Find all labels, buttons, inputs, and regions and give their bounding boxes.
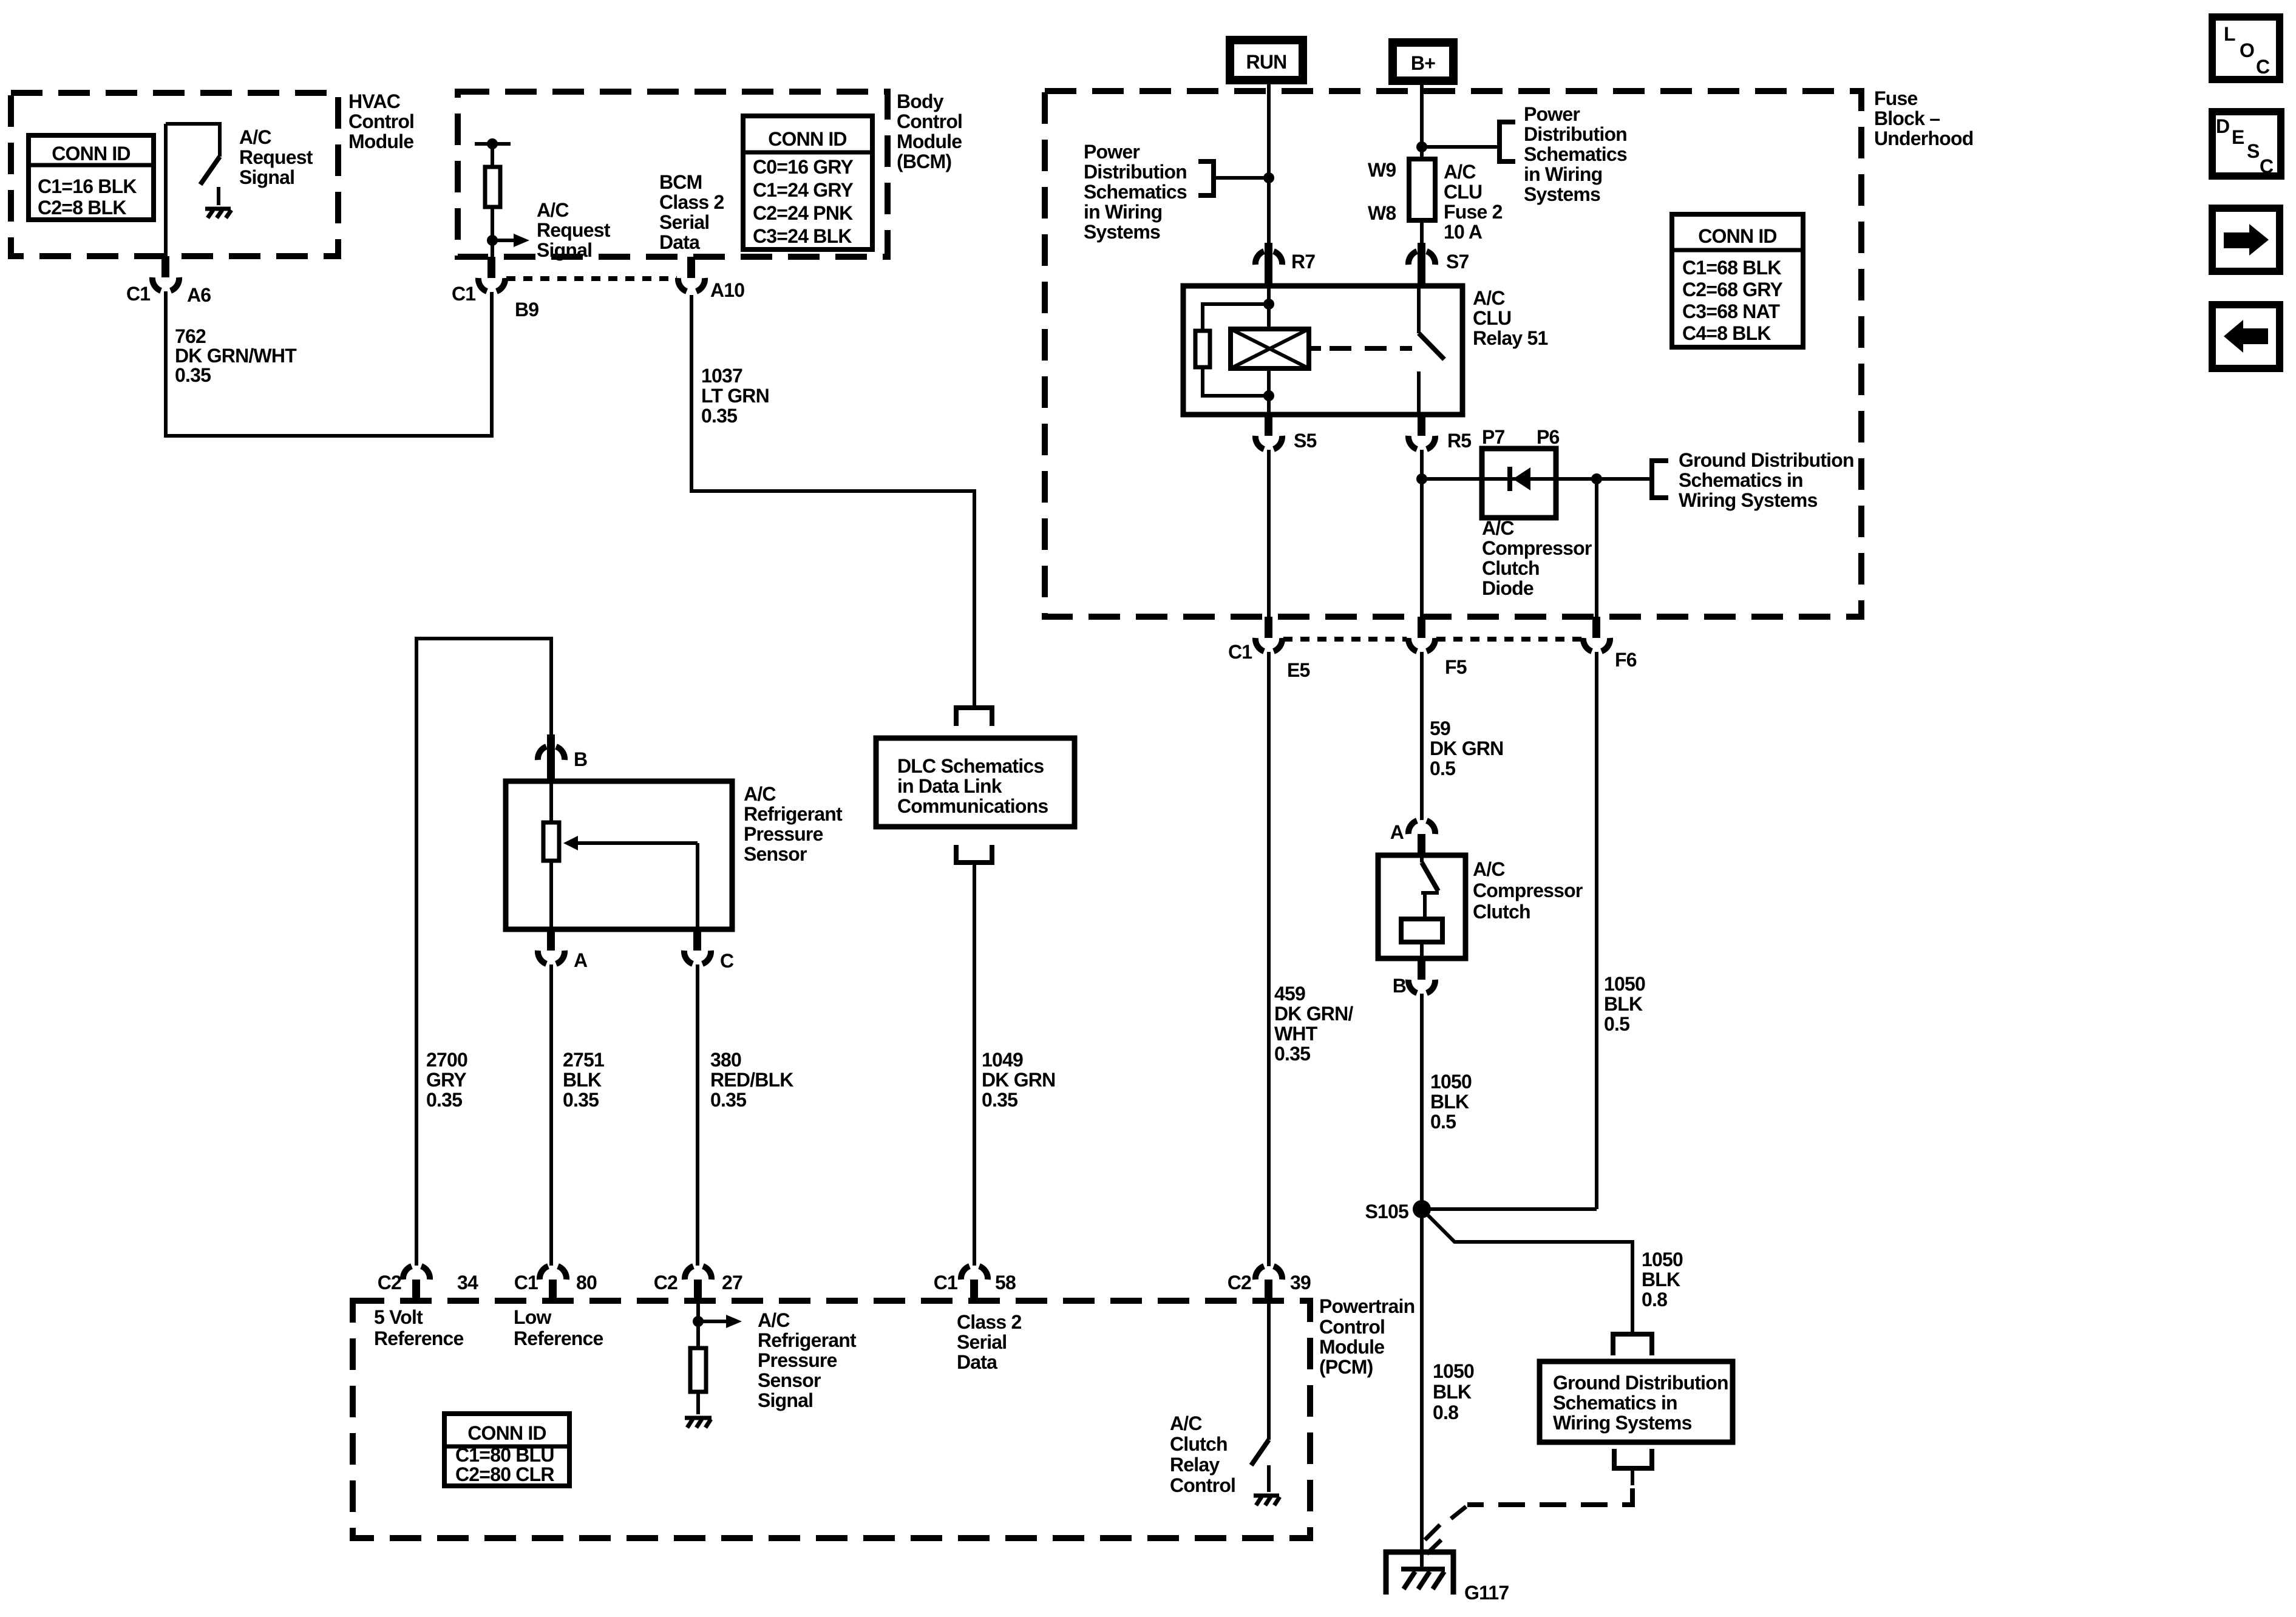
svg-text:Pressure: Pressure	[744, 823, 823, 845]
wire label 1050 BLK 0.5 (right)	[1604, 973, 1645, 1035]
svg-text:B: B	[574, 748, 587, 770]
connector S7	[1408, 243, 1469, 286]
svg-text:10 A: 10 A	[1444, 221, 1483, 243]
internal resistor (PCM)	[690, 1348, 706, 1414]
svg-text:BLK: BLK	[1433, 1381, 1472, 1403]
svg-text:380: 380	[710, 1049, 741, 1071]
svg-text:DK GRN/: DK GRN/	[1274, 1003, 1353, 1025]
off-page bracket below ground distribution box	[1614, 1449, 1652, 1468]
wire S105 to G117	[1420, 1209, 1424, 1567]
svg-text:Schematics: Schematics	[1084, 181, 1187, 203]
svg-text:0.8: 0.8	[1642, 1289, 1667, 1310]
svg-text:C2=68 GRY: C2=68 GRY	[1682, 279, 1782, 300]
connector F5	[1408, 617, 1467, 678]
svg-text:Wiring Systems: Wiring Systems	[1679, 489, 1818, 511]
wire 59 DK GRN F5 to A	[1420, 652, 1424, 820]
svg-text:39: 39	[1290, 1272, 1311, 1293]
svg-text:RUN: RUN	[1246, 51, 1287, 73]
connector R7	[1255, 243, 1315, 286]
Fuse Block Underhood label	[1874, 87, 1973, 149]
svg-text:CONN ID: CONN ID	[52, 143, 131, 164]
DLC Schematics box	[876, 738, 1075, 827]
svg-text:DK GRN: DK GRN	[982, 1069, 1055, 1091]
junction diode/F6	[1591, 473, 1602, 484]
Power Distribution Schematics in Wiring Systems label (B+)	[1524, 103, 1627, 205]
svg-text:HVAC: HVAC	[348, 90, 401, 112]
svg-text:C1: C1	[1228, 641, 1252, 663]
A/C Request Signal label (BCM)	[537, 199, 611, 261]
svg-text:Communications: Communications	[897, 795, 1048, 817]
svg-text:C2=8 BLK: C2=8 BLK	[38, 197, 126, 219]
wire label 1050 BLK 0.5 (left)	[1430, 1071, 1472, 1133]
Class 2 Serial Data label	[957, 1311, 1021, 1373]
svg-text:Fuse 2: Fuse 2	[1444, 201, 1503, 223]
relay coil branch resistor loop	[1195, 304, 1269, 396]
svg-text:C1=24 GRY: C1=24 GRY	[753, 179, 853, 201]
svg-text:0.35: 0.35	[175, 364, 211, 386]
svg-text:0.35: 0.35	[1274, 1043, 1310, 1065]
svg-text:Serial: Serial	[659, 211, 709, 233]
wire HVAC switch to connector A6	[164, 124, 168, 257]
svg-text:Signal: Signal	[537, 239, 592, 261]
svg-text:Signal: Signal	[758, 1389, 813, 1411]
svg-text:Control: Control	[348, 110, 414, 132]
relay switch	[1419, 286, 1444, 415]
A/C Refrigerant Pressure Sensor label	[744, 783, 843, 865]
wire B+ to S7	[1420, 84, 1424, 244]
relay coil wire	[1267, 286, 1271, 415]
svg-text:A: A	[574, 949, 588, 971]
wire F6 down to S105	[1422, 652, 1597, 1209]
svg-text:0.5: 0.5	[1430, 1111, 1456, 1133]
wire to power distribution bracket	[1214, 176, 1269, 180]
wire S105 branch to ground distribution	[1422, 1209, 1632, 1334]
svg-text:34: 34	[457, 1272, 478, 1293]
LOC box	[2212, 17, 2280, 80]
svg-text:Refrigerant: Refrigerant	[758, 1329, 857, 1351]
svg-text:B: B	[1393, 975, 1406, 997]
A/C CLU Fuse 2 10 A label	[1444, 161, 1503, 243]
svg-text:1050: 1050	[1430, 1071, 1472, 1093]
Fuse Block Underhood dashed box	[1045, 91, 1861, 617]
svg-text:Schematics: Schematics	[1524, 143, 1627, 165]
svg-text:Reference: Reference	[514, 1327, 603, 1349]
DLC off-page bracket top	[956, 708, 992, 726]
svg-text:A/C: A/C	[758, 1309, 790, 1331]
svg-text:Class 2: Class 2	[659, 191, 724, 213]
connector A (compressor clutch)	[1390, 821, 1435, 855]
wire label 2751 BLK 0.35	[563, 1049, 604, 1111]
svg-text:LT GRN: LT GRN	[701, 385, 769, 407]
svg-text:A/C: A/C	[1482, 517, 1514, 539]
svg-text:C: C	[2260, 155, 2274, 177]
wire label 1050 BLK 0.8 (right)	[1642, 1249, 1683, 1310]
wire 1037 LT GRN	[691, 295, 974, 707]
svg-text:27: 27	[722, 1272, 742, 1293]
svg-text:CONN ID: CONN ID	[467, 1422, 546, 1444]
svg-text:Low: Low	[514, 1306, 551, 1328]
svg-text:CONN ID: CONN ID	[768, 128, 847, 150]
svg-text:BLK: BLK	[1430, 1091, 1469, 1113]
svg-text:DK GRN/WHT: DK GRN/WHT	[175, 345, 297, 367]
svg-text:S7: S7	[1446, 251, 1469, 273]
svg-text:A/C: A/C	[1170, 1412, 1202, 1434]
svg-text:BLK: BLK	[1642, 1269, 1680, 1290]
svg-text:C1: C1	[514, 1272, 538, 1293]
svg-text:P6: P6	[1537, 426, 1560, 448]
wire R5 to F5	[1420, 450, 1424, 618]
svg-text:E5: E5	[1287, 659, 1310, 681]
svg-text:Relay: Relay	[1170, 1454, 1220, 1476]
wire label 459 DK GRN/ WHT 0.35	[1274, 983, 1353, 1065]
svg-text:2751: 2751	[563, 1049, 604, 1071]
wire 2751 BLK	[549, 964, 553, 1266]
relay linkage dashed	[1309, 346, 1321, 351]
off-page bracket (power distribution B+)	[1500, 122, 1515, 161]
wire 2700 GRY (5 volt reference)	[416, 639, 551, 1266]
svg-text:Sensor: Sensor	[758, 1369, 821, 1391]
svg-text:80: 80	[576, 1272, 597, 1293]
A/C CLU Relay 51 box	[1183, 286, 1462, 415]
Power Distribution Schematics in Wiring Systems label (RUN)	[1084, 141, 1187, 243]
svg-text:Ground Distribution: Ground Distribution	[1679, 449, 1854, 471]
svg-text:C1=80 BLU: C1=80 BLU	[455, 1444, 554, 1466]
svg-text:0.35: 0.35	[982, 1089, 1017, 1111]
svg-text:C2: C2	[1228, 1272, 1251, 1293]
splice diagonal ticks	[1425, 1507, 1466, 1540]
wire label 1049 DK GRN 0.35	[982, 1049, 1055, 1111]
connector B (compressor clutch)	[1393, 958, 1435, 997]
svg-text:in Data Link: in Data Link	[897, 775, 1002, 797]
connector C1 B9	[452, 257, 538, 320]
A/C Refrigerant Pressure Sensor box	[506, 781, 732, 929]
svg-text:Systems: Systems	[1084, 221, 1160, 243]
svg-text:0.5: 0.5	[1604, 1013, 1629, 1035]
wire RUN to R7	[1267, 84, 1271, 244]
wire label 1037 LT GRN 0.35	[701, 365, 769, 427]
svg-text:Module: Module	[897, 131, 962, 152]
svg-text:A/C: A/C	[239, 126, 271, 148]
junction dot	[693, 1316, 704, 1327]
svg-text:1050: 1050	[1642, 1249, 1683, 1270]
svg-text:Distribution: Distribution	[1084, 161, 1187, 183]
svg-text:Clutch: Clutch	[1482, 557, 1540, 579]
pull-up resistor (BCM)	[475, 144, 511, 257]
svg-text:S: S	[2247, 140, 2260, 162]
svg-text:Compressor: Compressor	[1473, 880, 1583, 901]
wire S5 to E5	[1267, 450, 1271, 618]
svg-text:BLK: BLK	[563, 1069, 602, 1091]
BCM Class 2 Serial Data label	[659, 171, 724, 253]
right arrow box	[2212, 208, 2280, 271]
svg-text:1050: 1050	[1604, 973, 1645, 995]
sensor wiper arrow	[563, 836, 698, 929]
svg-text:Schematics in: Schematics in	[1679, 469, 1803, 491]
5 Volt Reference label	[374, 1306, 464, 1349]
svg-text:BCM: BCM	[659, 171, 702, 193]
Low Reference label	[514, 1306, 603, 1349]
svg-text:C1: C1	[452, 283, 475, 305]
junction B+ branch	[1416, 141, 1427, 152]
svg-text:58: 58	[995, 1272, 1016, 1293]
CONN ID table (PCM)	[444, 1414, 569, 1486]
junction dots relay	[1263, 299, 1274, 310]
svg-text:(BCM): (BCM)	[897, 151, 951, 172]
svg-text:C0=16 GRY: C0=16 GRY	[753, 156, 853, 178]
off-page bracket above ground distribution box	[1613, 1334, 1652, 1355]
A/C Clutch Relay Control label	[1170, 1412, 1235, 1496]
connector C1 E5	[1228, 617, 1310, 681]
connector C2 34	[378, 1266, 478, 1301]
svg-text:in Wiring: in Wiring	[1084, 201, 1162, 223]
svg-text:Distribution: Distribution	[1524, 123, 1627, 145]
svg-text:E: E	[2232, 126, 2244, 148]
svg-text:C2: C2	[378, 1272, 401, 1293]
svg-text:CONN ID: CONN ID	[1698, 225, 1777, 247]
svg-text:W8: W8	[1368, 202, 1396, 224]
svg-text:Data: Data	[957, 1351, 997, 1373]
svg-text:D: D	[2216, 115, 2229, 137]
svg-text:762: 762	[175, 325, 206, 347]
junction dot at arrow	[487, 235, 498, 246]
ground (PCM sensor signal)	[685, 1418, 712, 1428]
connector C (pressure sensor)	[684, 929, 734, 972]
svg-text:A/C: A/C	[744, 783, 776, 805]
svg-text:DK GRN: DK GRN	[1430, 737, 1503, 759]
A/C request switch (HVAC)	[166, 124, 220, 205]
svg-text:W9: W9	[1368, 159, 1396, 181]
svg-text:R5: R5	[1447, 430, 1471, 452]
svg-text:0.8: 0.8	[1433, 1402, 1458, 1423]
wire label 762 DK GRN/WHT 0.35	[175, 325, 297, 386]
fuse W9/W8 A/C CLU Fuse 2 10A	[1368, 159, 1435, 224]
svg-text:Wiring Systems: Wiring Systems	[1553, 1412, 1692, 1434]
ground (HVAC switch)	[205, 209, 231, 218]
A/C Refrigerant Pressure Sensor Signal label	[758, 1309, 857, 1411]
svg-text:0.35: 0.35	[563, 1089, 599, 1111]
svg-text:C1=68 BLK: C1=68 BLK	[1682, 257, 1781, 279]
connector R5	[1408, 415, 1471, 452]
svg-text:B+: B+	[1411, 52, 1435, 74]
svg-text:Compressor: Compressor	[1482, 537, 1592, 559]
DESC box	[2212, 112, 2281, 177]
svg-text:B9: B9	[515, 299, 538, 320]
relay coil box with X	[1231, 329, 1309, 368]
svg-text:Data: Data	[659, 231, 700, 253]
svg-text:459: 459	[1274, 983, 1305, 1005]
svg-text:Class 2: Class 2	[957, 1311, 1021, 1333]
svg-text:Serial: Serial	[957, 1331, 1007, 1353]
svg-text:C: C	[720, 950, 734, 972]
svg-text:Request: Request	[239, 146, 313, 168]
A/C Compressor Clutch Diode box	[1482, 449, 1556, 518]
svg-text:A6: A6	[187, 284, 211, 306]
connector C2 39	[1228, 1266, 1311, 1301]
svg-text:Ground Distribution: Ground Distribution	[1553, 1372, 1728, 1394]
svg-text:Reference: Reference	[374, 1327, 464, 1349]
svg-text:Signal: Signal	[239, 166, 294, 188]
junction dot top of resistor	[487, 138, 498, 149]
svg-text:L: L	[2224, 23, 2235, 45]
svg-text:R7: R7	[1291, 251, 1315, 273]
svg-text:C1: C1	[126, 283, 150, 305]
svg-text:C2: C2	[654, 1272, 678, 1293]
svg-text:Refrigerant: Refrigerant	[744, 803, 843, 825]
CONN ID table (BCM)	[743, 116, 872, 249]
svg-text:Control: Control	[1170, 1474, 1235, 1496]
svg-text:RED/BLK: RED/BLK	[710, 1069, 793, 1091]
A/C request signal arrow (BCM)	[492, 234, 529, 247]
svg-text:P7: P7	[1482, 426, 1505, 448]
svg-text:Power: Power	[1524, 103, 1580, 125]
wire 459 E5 to connector 39	[1267, 652, 1271, 1266]
A/C clutch relay control switch (PCM)	[1251, 1301, 1269, 1492]
connector A10	[678, 257, 744, 301]
svg-text:A10: A10	[710, 279, 744, 301]
svg-text:Module: Module	[1319, 1336, 1384, 1358]
B+ terminal box	[1393, 42, 1453, 81]
svg-text:F5: F5	[1445, 656, 1467, 678]
svg-text:C4=8 BLK: C4=8 BLK	[1682, 322, 1771, 344]
svg-text:C1=16 BLK: C1=16 BLK	[38, 175, 137, 197]
svg-text:0.35: 0.35	[701, 405, 737, 427]
wire to power distribution bracket (B+)	[1422, 145, 1500, 149]
wire 1049 DK GRN	[973, 863, 976, 1266]
svg-text:Pressure: Pressure	[758, 1349, 837, 1371]
svg-text:Systems: Systems	[1524, 183, 1600, 205]
svg-text:Block –: Block –	[1874, 107, 1940, 129]
wire label 1050 BLK 0.8 (left)	[1433, 1360, 1474, 1423]
left arrow box	[2212, 305, 2280, 368]
svg-text:2700: 2700	[426, 1049, 467, 1071]
dotted connector line B9 to A10	[506, 276, 677, 281]
diode symbol	[1510, 467, 1530, 491]
Powertrain Control Module dashed box	[353, 1301, 1310, 1538]
svg-text:Underhood: Underhood	[1874, 127, 1973, 149]
wire label 59 DK GRN 0.5	[1430, 717, 1503, 779]
wire 380 RED/BLK	[696, 964, 699, 1266]
svg-text:A: A	[1390, 821, 1404, 843]
svg-text:O: O	[2240, 39, 2254, 61]
svg-text:C3=24 BLK: C3=24 BLK	[753, 225, 852, 247]
svg-text:A/C: A/C	[1473, 287, 1505, 309]
splice S105	[1365, 1200, 1431, 1222]
Body Control Module (BCM) label	[897, 90, 962, 172]
svg-text:Clutch: Clutch	[1473, 901, 1530, 923]
svg-text:0.35: 0.35	[426, 1089, 462, 1111]
off-page bracket (ground distribution diode)	[1652, 461, 1668, 498]
dotted connector line E5-F5-F6	[1283, 637, 1407, 642]
Powertrain Control Module (PCM) label	[1319, 1295, 1415, 1378]
Ground Distribution Schematics in Wiring Systems label (diode)	[1679, 449, 1854, 511]
A/C refrigerant pressure sensor signal circuit (PCM)	[696, 1301, 700, 1348]
Ground Distribution Schematics box	[1540, 1361, 1733, 1442]
svg-text:1037: 1037	[701, 365, 742, 387]
svg-text:Power: Power	[1084, 141, 1140, 163]
off-page bracket (power distribution RUN)	[1198, 161, 1214, 195]
HVAC Control Module label	[348, 90, 414, 152]
svg-text:Control: Control	[1319, 1316, 1385, 1338]
svg-text:Request: Request	[537, 219, 611, 241]
wire 762 DK GRN/WHT	[166, 291, 492, 436]
wire label 2700 GRY 0.35	[426, 1049, 467, 1111]
svg-text:Module: Module	[348, 131, 413, 152]
svg-text:C1: C1	[934, 1272, 957, 1293]
svg-text:Fuse: Fuse	[1874, 87, 1918, 109]
svg-text:DLC Schematics: DLC Schematics	[897, 755, 1044, 777]
Body Control Module dashed box	[458, 92, 888, 257]
svg-text:59: 59	[1430, 717, 1450, 739]
RUN terminal box	[1230, 40, 1303, 80]
DLC off-page bracket bottom	[956, 845, 992, 863]
svg-text:Relay 51: Relay 51	[1473, 327, 1547, 349]
svg-text:C: C	[2256, 56, 2270, 78]
svg-text:0.5: 0.5	[1430, 758, 1455, 779]
svg-text:C3=68 NAT: C3=68 NAT	[1682, 300, 1781, 322]
junction RUN branch	[1263, 172, 1274, 183]
svg-text:Control: Control	[897, 110, 962, 132]
connector A (pressure sensor)	[538, 929, 588, 971]
svg-text:1050: 1050	[1433, 1360, 1474, 1382]
sensor internal resistor	[543, 781, 559, 929]
svg-text:CLU: CLU	[1473, 307, 1511, 329]
svg-text:S5: S5	[1294, 430, 1317, 452]
HVAC Control Module dashed box	[11, 93, 338, 256]
svg-text:F6: F6	[1615, 649, 1637, 671]
connector C1 A6	[126, 256, 211, 306]
svg-text:WHT: WHT	[1274, 1023, 1318, 1045]
svg-text:A/C: A/C	[537, 199, 569, 221]
wire through diode	[1422, 477, 1652, 481]
svg-text:C2=80 CLR: C2=80 CLR	[455, 1463, 554, 1485]
svg-text:5 Volt: 5 Volt	[374, 1306, 423, 1328]
ground G117	[1386, 1540, 1509, 1604]
svg-text:A/C: A/C	[1444, 161, 1476, 183]
svg-text:Clutch: Clutch	[1170, 1433, 1228, 1455]
svg-text:A/C: A/C	[1473, 858, 1505, 880]
connector C1 58	[934, 1266, 1016, 1301]
svg-text:C2=24 PNK: C2=24 PNK	[753, 202, 853, 224]
dashed ground path	[1467, 1488, 1632, 1505]
wire 1050 BLK B to S105	[1420, 994, 1424, 1209]
connector C2 27	[654, 1266, 742, 1301]
ground (relay control)	[1254, 1496, 1280, 1505]
A/C Compressor Clutch box	[1378, 855, 1466, 958]
connector F6	[1583, 617, 1637, 671]
tail wire below bracket	[1631, 1468, 1634, 1485]
svg-text:Powertrain: Powertrain	[1319, 1295, 1415, 1317]
A/C Compressor Clutch Diode label	[1482, 517, 1592, 599]
junction R5/diode	[1416, 473, 1427, 484]
svg-text:in Wiring: in Wiring	[1524, 163, 1602, 185]
svg-text:CLU: CLU	[1444, 181, 1482, 203]
svg-text:0.35: 0.35	[710, 1089, 746, 1111]
wire diode junction to F6	[1595, 479, 1598, 618]
svg-text:Diode: Diode	[1482, 577, 1533, 599]
svg-text:G117: G117	[1464, 1582, 1509, 1604]
A/C Compressor Clutch label	[1473, 858, 1583, 923]
svg-text:GRY: GRY	[426, 1069, 466, 1091]
svg-text:Schematics in: Schematics in	[1553, 1392, 1677, 1414]
CONN ID table (fuse block)	[1672, 214, 1803, 347]
svg-text:Sensor: Sensor	[744, 843, 807, 865]
P7 P6 labels	[1482, 426, 1560, 448]
connector S5	[1255, 415, 1317, 452]
clutch internal switch and coil	[1401, 855, 1442, 958]
svg-text:Body: Body	[897, 90, 944, 112]
CONN ID table (HVAC)	[29, 135, 154, 220]
connector C1 80	[514, 1266, 597, 1301]
